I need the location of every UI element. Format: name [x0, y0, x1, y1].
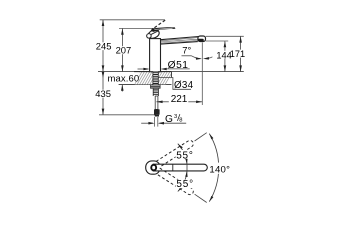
counter block top edge [134, 71, 172, 73]
140 degree arc [209, 134, 218, 202]
svg-text:3: 3 [174, 114, 177, 120]
bottom extension line (end of supply pipes) [99, 114, 156, 116]
plan cartridge slot [151, 165, 156, 171]
fitting stub below [155, 115, 159, 117]
svg-text:max.60: max.60 [108, 73, 140, 84]
svg-text:245: 245 [96, 41, 112, 52]
cartridge dome [147, 28, 160, 40]
diameter 34 label with stepped leader [159, 78, 192, 90]
svg-text:Ø34: Ø34 [174, 80, 194, 91]
dimension 435 vertical line [102, 72, 104, 115]
dome front circle [147, 34, 152, 39]
lever raised position (dashed) [154, 20, 165, 28]
counter bottom line [119, 84, 172, 86]
svg-text:221: 221 [171, 94, 188, 105]
threaded shank through counter [153, 72, 158, 85]
threaded shank below nut [153, 89, 158, 96]
55deg arc shafts crossing the bar [186, 164, 188, 171]
dimension 207 vertical line with arrows [121, 29, 123, 72]
svg-text:171: 171 [230, 49, 245, 59]
counter hatch right block [158, 72, 171, 85]
svg-text:8: 8 [179, 117, 182, 123]
counter top extension line [98, 71, 244, 73]
plan body (rounded cap) [146, 161, 160, 174]
svg-text:435: 435 [95, 88, 111, 99]
label 140 degrees [209, 163, 231, 174]
G3/8 pipe edge extension lines [154, 117, 156, 127]
radial extension line top [195, 133, 207, 141]
spout outlet (mousseur) [198, 39, 204, 42]
dimension 171 [240, 37, 242, 72]
dimension 245 vertical line with arrows [102, 20, 104, 72]
supply pipe [155, 96, 158, 109]
spout bottom edge [160, 42, 197, 45]
G3/8 diameter arrows [141, 122, 153, 124]
label 435 [95, 90, 112, 98]
extension line top of spout/lever (207) [119, 27, 154, 29]
plan spout joint line [172, 164, 174, 171]
spout top edge [160, 37, 198, 40]
spout end cap [198, 36, 206, 42]
spout inner highlight lines [161, 38, 198, 41]
outlet centerline down from spout [201, 43, 203, 106]
lever blade (solid position) [151, 27, 176, 32]
svg-text:7°: 7° [182, 46, 191, 57]
dashed swivel arm down [156, 168, 194, 196]
svg-text:140°: 140° [209, 165, 230, 176]
label 55 degrees bottom [176, 180, 194, 189]
counter hatch left block [135, 72, 153, 85]
extension line top of raised lever (245) [100, 19, 165, 21]
label 245 [95, 42, 112, 50]
label 55 degrees top [176, 150, 194, 159]
svg-text:207: 207 [116, 45, 132, 56]
55 degree arc bottom [178, 171, 187, 192]
mounting nut under counter [150, 84, 160, 88]
label 207 [115, 46, 131, 54]
faucet body [150, 39, 161, 72]
label max.60 [107, 74, 139, 82]
dimension 221 [156, 101, 168, 103]
radial extension line bottom [195, 194, 207, 202]
G3/8 end fitting [154, 109, 160, 114]
lever pivot line inside dome [150, 31, 158, 35]
max.60 lower arrow pointing up to counter underside [121, 85, 123, 92]
plan spout bar [153, 164, 208, 171]
55 degree arc top [178, 144, 187, 165]
extension line spout top (171) [206, 35, 244, 37]
svg-text:55°: 55° [176, 150, 194, 161]
dashed swivel arm up [156, 139, 194, 167]
dimension 144 [224, 41, 226, 71]
extension line spout outlet bottom (144) [206, 40, 228, 42]
svg-text:55°: 55° [176, 179, 194, 190]
counter block right edge [171, 72, 173, 78]
